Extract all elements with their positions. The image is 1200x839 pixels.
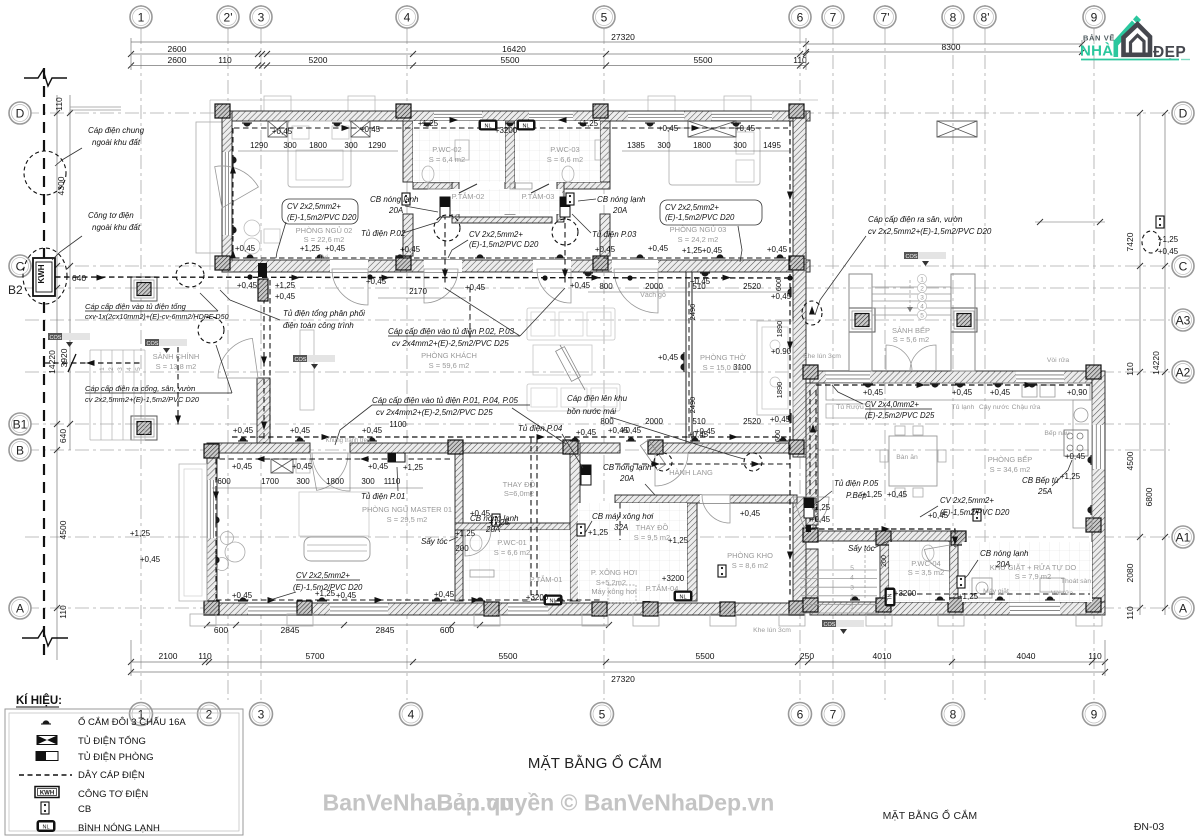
bath sinks [455, 140, 469, 160]
svg-text:A2: A2 [1176, 365, 1191, 379]
svg-text:+3200: +3200 [526, 593, 549, 602]
svg-text:+3200: +3200 [495, 126, 518, 135]
wall: master block B1 [207, 443, 310, 453]
svg-text:2600: 2600 [168, 44, 187, 54]
svg-text:1: 1 [99, 367, 106, 371]
svg-text:PHÒNG NGỦ 02: PHÒNG NGỦ 02 [296, 226, 353, 235]
left dimension columns [56, 95, 58, 660]
ngu02 armchairs [244, 220, 260, 236]
svg-text:(E)-1,5m2/PVC D20: (E)-1,5m2/PVC D20 [665, 213, 735, 222]
property line (dashed bold) [43, 68, 45, 662]
svg-text:BẢN VẼ: BẢN VẼ [1083, 34, 1115, 43]
svg-text:Cáp cấp điện vào tủ điện P.02,: Cáp cấp điện vào tủ điện P.02, P.03 [388, 327, 515, 336]
svg-text:P.WC-02: P.WC-02 [432, 145, 461, 154]
svg-text:+0,45: +0,45 [887, 490, 908, 499]
bed ngu02 [288, 121, 351, 187]
svg-text:Tủ điện P.04: Tủ điện P.04 [518, 424, 563, 433]
svg-text:+1,25: +1,25 [403, 463, 424, 472]
svg-text:+0,45: +0,45 [290, 426, 311, 435]
svg-text:+0,45: +0,45 [400, 245, 421, 254]
arrow [537, 434, 546, 440]
svg-text:6: 6 [797, 10, 804, 24]
svg-text:8': 8' [981, 10, 990, 24]
master chairs [221, 532, 234, 545]
svg-text:+0,45: +0,45 [770, 415, 791, 424]
svg-text:ngoài khu đất: ngoài khu đất [92, 223, 141, 232]
NL boxes [479, 120, 498, 131]
svg-text:600: 600 [773, 430, 782, 443]
svg-text:Cáp cấp điện ra sân, vườn: Cáp cấp điện ra sân, vườn [868, 215, 963, 224]
svg-text:CV 2x2,5mm2+: CV 2x2,5mm2+ [296, 571, 350, 580]
svg-text:1290: 1290 [250, 141, 268, 150]
tu ruou cabinet [826, 404, 870, 418]
cable riser x790 [789, 121, 791, 598]
svg-text:CV 2x2,5mm2+: CV 2x2,5mm2+ [469, 230, 523, 239]
svg-text:4: 4 [408, 707, 415, 721]
cable riser x267 [263, 280, 265, 443]
wall: WC partition x600 [600, 121, 610, 182]
outlets right wing bottom [850, 596, 860, 600]
svg-text:640: 640 [72, 273, 86, 283]
panel P.01 [388, 453, 405, 462]
wall: kitchen left (khe lun) [806, 383, 818, 525]
grid bubbles top [140, 5, 142, 30]
window bottom wall [248, 603, 306, 615]
wall: right wing bottom (grid A) [810, 602, 1105, 615]
svg-text:+0,45: +0,45 [292, 462, 313, 471]
svg-text:+0,45: +0,45 [366, 277, 387, 286]
panel P.02 [440, 197, 450, 217]
svg-text:+0,45: +0,45 [608, 426, 629, 435]
arrow [322, 434, 331, 440]
legend row: cong to dien [35, 787, 59, 798]
svg-text:2: 2 [920, 285, 924, 292]
washing machine [972, 578, 992, 598]
svg-text:1100: 1100 [389, 420, 407, 429]
svg-text:5: 5 [850, 565, 854, 572]
wall: right main x797 (grid 6) [793, 111, 806, 457]
window top wall [712, 111, 772, 121]
svg-text:A: A [1179, 601, 1187, 615]
svg-text:CB: CB [78, 804, 91, 815]
svg-text:+0,45: +0,45 [688, 430, 709, 439]
svg-text:20A: 20A [612, 206, 627, 215]
svg-text:800: 800 [599, 282, 613, 291]
cable living verticals [469, 287, 471, 340]
svg-text:P.WC-04: P.WC-04 [911, 559, 940, 568]
svg-text:3: 3 [258, 707, 265, 721]
svg-text:C: C [1179, 259, 1188, 273]
svg-text:1495: 1495 [763, 141, 781, 150]
window left wall [222, 152, 232, 235]
right dimension columns [1139, 113, 1141, 615]
svg-text:NL: NL [886, 593, 892, 600]
top dimension rows [131, 41, 806, 43]
wall: WC partition x404 [403, 121, 413, 182]
svg-text:1700: 1700 [261, 477, 279, 486]
stairs sanh bep steps [872, 286, 951, 288]
svg-text:4010: 4010 [873, 651, 892, 661]
svg-text:110: 110 [1125, 606, 1135, 620]
svg-text:7': 7' [881, 10, 890, 24]
svg-text:510: 510 [692, 417, 706, 426]
svg-text:THAY ĐỒ: THAY ĐỒ [636, 522, 669, 532]
wc fixtures [422, 166, 434, 182]
wall: x570 core [570, 443, 580, 601]
svg-text:4040: 4040 [1017, 651, 1036, 661]
svg-text:3: 3 [258, 10, 265, 24]
svg-text:Bếp nấu: Bếp nấu [1044, 428, 1070, 437]
svg-text:CB nóng lạnh: CB nóng lạnh [370, 195, 419, 204]
logo ban ve nha dep [1080, 15, 1190, 61]
svg-text:3: 3 [920, 294, 924, 301]
svg-text:NL: NL [484, 123, 491, 129]
svg-text:P.WC-01: P.WC-01 [497, 538, 526, 547]
svg-text:300: 300 [283, 141, 297, 150]
svg-text:CV 2x4,0mm2+: CV 2x4,0mm2+ [865, 400, 919, 409]
svg-text:(E)-1,5m2/PVC D20: (E)-1,5m2/PVC D20 [469, 240, 539, 249]
svg-text:6: 6 [797, 707, 804, 721]
svg-text:600: 600 [217, 477, 231, 486]
dashed callout circles [24, 151, 66, 195]
svg-text:Vòi rửa: Vòi rửa [1047, 356, 1070, 364]
cable run top wall interior y128 [234, 127, 788, 129]
svg-text:S = 3,5 m2: S = 3,5 m2 [908, 568, 944, 577]
svg-text:+1,25: +1,25 [455, 529, 476, 538]
cable laundry y592 [890, 593, 1090, 595]
svg-text:8300: 8300 [942, 42, 961, 52]
svg-text:2845: 2845 [376, 625, 395, 635]
wall: corridor bottom [615, 495, 797, 503]
svg-text:2490: 2490 [688, 304, 697, 321]
svg-text:600: 600 [440, 625, 454, 635]
cable main run B2 y287 [55, 277, 792, 278]
svg-text:+0,45: +0,45 [336, 591, 357, 600]
wardrobe ngu03 [688, 121, 736, 137]
walls: P.WC-04 [880, 541, 889, 602]
svg-text:+0,45: +0,45 [275, 292, 296, 301]
wall: WC divider x505 [505, 121, 515, 214]
arrow [97, 275, 106, 281]
svg-text:P. XÔNG HƠI: P. XÔNG HƠI [591, 568, 637, 577]
grid bubbles right [1172, 102, 1194, 124]
svg-text:S = 59,6 m2: S = 59,6 m2 [429, 361, 470, 370]
svg-text:+0,45: +0,45 [658, 353, 679, 362]
svg-text:B1: B1 [13, 417, 28, 431]
svg-text:5500: 5500 [501, 55, 520, 65]
svg-text:+0,45: +0,45 [570, 281, 591, 290]
svg-text:+0,45: +0,45 [232, 591, 253, 600]
svg-text:8: 8 [950, 707, 957, 721]
svg-text:D: D [16, 106, 25, 120]
svg-text:2845: 2845 [281, 625, 300, 635]
svg-text:Tủ điện P.05: Tủ điện P.05 [834, 479, 879, 488]
svg-text:cv 2x2,5mm2+(E)-1,5m2/PVC D20: cv 2x2,5mm2+(E)-1,5m2/PVC D20 [85, 395, 200, 404]
svg-text:Cáp cấp điện vào tủ điện tổng: Cáp cấp điện vào tủ điện tổng [85, 302, 187, 311]
svg-text:4: 4 [850, 575, 854, 582]
svg-text:1: 1 [138, 10, 145, 24]
svg-text:300: 300 [296, 477, 310, 486]
tv cabinet living [300, 330, 314, 410]
svg-text:1110: 1110 [384, 477, 401, 486]
svg-text:300: 300 [657, 141, 671, 150]
svg-text:cxv-1x(2cx10mm2)+(E)-cv-6mm2/H: cxv-1x(2cx10mm2)+(E)-cv-6mm2/HDPE D50 [85, 312, 229, 321]
outlets left walls [233, 155, 237, 165]
cable gate line y363 [44, 362, 140, 364]
svg-text:(E)-1,5m2/PVC D20: (E)-1,5m2/PVC D20 [940, 508, 1010, 517]
arrow [292, 275, 301, 281]
svg-text:2000: 2000 [645, 282, 663, 291]
svg-text:2600: 2600 [168, 55, 187, 65]
svg-text:800: 800 [600, 417, 614, 426]
tam door leaves [459, 184, 477, 193]
legend row: binh nong lanh [37, 820, 56, 832]
svg-text:+1,25: +1,25 [578, 119, 599, 128]
svg-text:BÌNH NÓNG LẠNH: BÌNH NÓNG LẠNH [78, 823, 160, 834]
svg-text:Tủ điện P.01: Tủ điện P.01 [361, 492, 405, 501]
svg-text:P.TẮM-03: P.TẮM-03 [522, 192, 555, 201]
svg-text:A: A [16, 601, 24, 615]
svg-text:2': 2' [224, 10, 233, 24]
legend row: o cam doi [41, 720, 51, 724]
wall: P.TAM-01 divider [523, 560, 530, 601]
wall: A1 [806, 531, 962, 541]
svg-text:bồn nước mái: bồn nước mái [567, 407, 616, 416]
svg-text:3920: 3920 [59, 348, 69, 367]
cable master bottom y594 [216, 599, 600, 601]
outlets right wall kitchen [1087, 455, 1091, 465]
svg-text:S = 5,6 m2: S = 5,6 m2 [893, 335, 929, 344]
svg-text:KWH: KWH [37, 264, 46, 283]
svg-text:COS: COS [906, 254, 918, 260]
svg-text:S = 9,5 m2: S = 9,5 m2 [634, 533, 670, 542]
terrace master left [179, 464, 207, 601]
svg-text:COS: COS [50, 335, 62, 341]
bottom dimension rows [207, 624, 609, 626]
grid bubbles bottom [130, 703, 153, 726]
svg-text:2520: 2520 [743, 282, 761, 291]
svg-text:5700: 5700 [306, 651, 325, 661]
svg-text:20A: 20A [619, 474, 634, 483]
svg-text:+1,25: +1,25 [810, 503, 831, 512]
svg-text:8: 8 [950, 10, 957, 24]
svg-text:5: 5 [920, 312, 924, 319]
svg-text:+1,25: +1,25 [418, 119, 439, 128]
svg-text:(E)-2,5m2/PVC D25: (E)-2,5m2/PVC D25 [865, 411, 935, 420]
svg-text:9: 9 [1091, 10, 1098, 24]
arrow [592, 275, 601, 281]
svg-text:MẶT BẰNG Ổ CẮM: MẶT BẰNG Ổ CẮM [528, 754, 662, 772]
svg-text:+0,45: +0,45 [232, 462, 253, 471]
svg-text:Cáp cấp điện vào tủ điện P.01,: Cáp cấp điện vào tủ điện P.01, P.04, P.0… [372, 396, 518, 405]
vach go partition phong tho [685, 272, 687, 443]
panel P.03 [560, 197, 570, 217]
svg-text:Tủ điện tổng phân phối: Tủ điện tổng phân phối [283, 309, 365, 318]
svg-text:250: 250 [800, 651, 814, 661]
svg-text:+0,45: +0,45 [690, 277, 711, 286]
svg-text:+3200: +3200 [662, 574, 685, 583]
svg-text:S+5,2m2: S+5,2m2 [596, 578, 626, 587]
svg-text:+0,45: +0,45 [648, 244, 669, 253]
sauna bench diagonal [560, 345, 585, 390]
svg-text:1: 1 [920, 276, 924, 283]
outlets B2 cable junction dots [247, 274, 252, 279]
section mark bottom left [22, 630, 68, 646]
window bottom wall [508, 603, 548, 615]
grid axis lines [140, 30, 142, 700]
svg-text:CV 2x2,5mm2+: CV 2x2,5mm2+ [940, 496, 994, 505]
porch outline left [196, 122, 222, 253]
svg-text:S = 7,9 m2: S = 7,9 m2 [1015, 572, 1051, 581]
svg-text:2520: 2520 [743, 417, 761, 426]
wall: kitchen A2 top [810, 371, 1105, 383]
svg-text:+1,25: +1,25 [958, 592, 979, 601]
svg-text:5500: 5500 [696, 651, 715, 661]
svg-text:32A: 32A [614, 523, 628, 532]
svg-text:+0,45: +0,45 [767, 245, 788, 254]
wall: x687 PHONG KHO [687, 503, 697, 601]
svg-text:110: 110 [198, 651, 212, 661]
cable gate riser x178 [177, 347, 179, 428]
bed ngu03 [669, 128, 760, 185]
svg-text:tivi: tivi [320, 254, 328, 261]
svg-text:ĐẸP: ĐẸP [1153, 44, 1186, 61]
svg-text:PHÒNG NGỦ MASTER 01: PHÒNG NGỦ MASTER 01 [362, 505, 452, 514]
svg-text:1890: 1890 [775, 321, 784, 338]
CB boxes [402, 193, 410, 205]
svg-text:P.WC-03: P.WC-03 [550, 145, 579, 154]
svg-text:+0,45: +0,45 [1158, 247, 1179, 256]
wall: THAY DO bottom [455, 523, 570, 530]
svg-text:16420: 16420 [502, 44, 526, 54]
svg-text:CB máy xông hơi: CB máy xông hơi [592, 512, 654, 521]
svg-text:Ổ CẮM ĐÔI 3 CHẤU 16A: Ổ CẮM ĐÔI 3 CHẤU 16A [78, 716, 186, 728]
svg-text:D: D [1179, 106, 1188, 120]
legend row: tu dien tong [37, 736, 57, 745]
arrow [382, 275, 391, 281]
svg-text:2000: 2000 [645, 417, 663, 426]
svg-text:1800: 1800 [693, 141, 711, 150]
svg-text:P.TẮM-04: P.TẮM-04 [646, 584, 679, 593]
svg-text:+0,45: +0,45 [233, 426, 254, 435]
svg-text:Máy xông hơi: Máy xông hơi [591, 587, 637, 596]
meter KWH [33, 258, 55, 296]
svg-text:5: 5 [599, 707, 606, 721]
svg-text:+0,45: +0,45 [810, 515, 831, 524]
section mark top left [24, 70, 67, 86]
svg-text:SẢNH BẾP: SẢNH BẾP [892, 325, 930, 335]
svg-text:3: 3 [117, 367, 124, 371]
svg-text:4500: 4500 [58, 520, 68, 539]
svg-text:3: 3 [850, 584, 854, 591]
svg-text:S = 8,6 m2: S = 8,6 m2 [732, 561, 768, 570]
svg-text:300: 300 [361, 477, 375, 486]
column footing pads bottom [190, 614, 216, 626]
svg-text:Cáp điện chung: Cáp điện chung [88, 126, 145, 135]
svg-text:+1,25: +1,25 [668, 536, 689, 545]
svg-text:CB nóng lạnh: CB nóng lạnh [470, 514, 519, 523]
wall: kitchen right exterior [1092, 371, 1105, 615]
shower tray xong hoi [608, 585, 636, 603]
master wardrobe x [271, 459, 293, 473]
svg-text:Khe lún 3cm: Khe lún 3cm [753, 627, 791, 634]
svg-text:CV 2x2,5mm2+: CV 2x2,5mm2+ [287, 202, 341, 211]
svg-text:Máy giặt: Máy giặt [983, 588, 1009, 595]
window top wall [628, 111, 684, 121]
legend row: CB [41, 802, 49, 814]
svg-text:7: 7 [830, 10, 837, 24]
stairs sanh chinh (left) [89, 350, 91, 440]
svg-text:COS: COS [295, 357, 307, 363]
outlets kitchen A2 [863, 384, 873, 388]
svg-text:PHÒNG BẾP: PHÒNG BẾP [988, 454, 1033, 464]
entry door master from hallway [310, 453, 348, 490]
cable riser tam03 [564, 214, 566, 285]
svg-text:Vòi rửa: Vòi rửa [1051, 589, 1074, 597]
svg-text:200: 200 [455, 544, 469, 553]
svg-text:S = 6,4 m2: S = 6,4 m2 [429, 155, 465, 164]
svg-text:A1: A1 [1176, 530, 1191, 544]
door arcs [332, 269, 368, 305]
svg-text:20A: 20A [388, 206, 403, 215]
svg-text:Khung tranh treo: Khung tranh treo [326, 438, 371, 444]
svg-text:+0,45: +0,45 [658, 124, 679, 133]
svg-text:4: 4 [920, 303, 924, 310]
svg-text:4500: 4500 [1125, 451, 1135, 470]
svg-text:S = 6,6 m2: S = 6,6 m2 [547, 155, 583, 164]
svg-text:Sấy tóc: Sấy tóc [848, 544, 875, 553]
entry arc sanh chinh [218, 338, 258, 378]
svg-text:DÂY CÁP ĐIỆN: DÂY CÁP ĐIỆN [78, 770, 145, 781]
svg-text:4300: 4300 [56, 176, 66, 195]
svg-text:CÔNG TƠ ĐIỆN: CÔNG TƠ ĐIỆN [78, 789, 148, 800]
columns [215, 104, 230, 118]
svg-text:640: 640 [58, 429, 68, 443]
svg-text:1800: 1800 [326, 477, 344, 486]
cable kitchen top y385 [816, 384, 1090, 386]
svg-text:5: 5 [601, 10, 608, 24]
svg-text:2: 2 [108, 367, 115, 371]
svg-text:+0,45: +0,45 [740, 509, 761, 518]
svg-text:5500: 5500 [499, 651, 518, 661]
svg-text:5500: 5500 [694, 55, 713, 65]
svg-text:20A: 20A [995, 560, 1010, 569]
svg-text:NL: NL [679, 594, 686, 600]
svg-text:THAY ĐỒ: THAY ĐỒ [503, 479, 536, 489]
svg-text:2170: 2170 [409, 287, 427, 296]
panel P.05 [804, 498, 814, 518]
outlets C wall extra / vach go / right wall [583, 273, 593, 277]
svg-text:110: 110 [218, 55, 232, 65]
svg-text:600: 600 [774, 279, 783, 292]
svg-text:TỦ ĐIỆN PHÒNG: TỦ ĐIỆN PHÒNG [78, 751, 153, 763]
svg-text:110: 110 [54, 97, 64, 111]
wall: grid C long interior [222, 260, 810, 272]
svg-text:+0,90: +0,90 [1067, 388, 1088, 397]
svg-text:S=6,0m2: S=6,0m2 [504, 489, 534, 498]
svg-text:PHÒNG NGỦ 03: PHÒNG NGỦ 03 [670, 225, 727, 234]
svg-text:S = 15,0 m2: S = 15,0 m2 [703, 363, 744, 372]
svg-text:+0,45: +0,45 [362, 426, 383, 435]
svg-text:B2: B2 [8, 283, 23, 297]
svg-text:+3200: +3200 [894, 589, 917, 598]
cable run y437 [232, 436, 790, 438]
svg-text:4: 4 [126, 367, 133, 371]
legend row: day cap dien [19, 774, 72, 776]
window top wall [529, 111, 573, 121]
phong tho altar [757, 321, 793, 415]
outlets B1 wall [238, 437, 248, 441]
